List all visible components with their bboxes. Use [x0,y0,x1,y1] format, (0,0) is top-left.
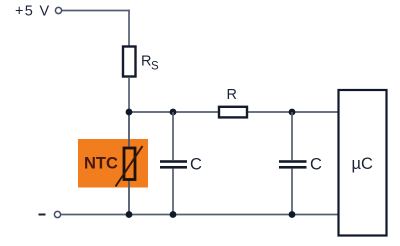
junction bottom rail at NTC [126,211,133,218]
resistor RS body [123,47,136,77]
svg-text:R: R [227,87,237,103]
node minus terminal [54,211,60,217]
svg-text:NTC: NTC [84,155,118,173]
thermistor NTC body [124,148,135,180]
svg-text:+5 V: +5 V [15,4,50,20]
node +5V terminal [55,7,61,13]
wire vertical from top rail down to Rs [128,10,130,46]
capacitor C1 bottom lead [172,169,174,215]
junction node A (Rs / NTC / rail) [126,109,133,116]
capacitor C2 plates [279,160,307,168]
junction middle rail at C1 [170,109,177,116]
svg-text:R: R [141,54,151,70]
thermistor NTC diagonal stroke [116,146,143,187]
svg-text:C: C [190,156,202,174]
capacitor C2 top lead [291,112,293,160]
junction middle rail at C2 [289,109,296,116]
capacitor C2 bottom lead [291,169,293,215]
wire through NTC from node A to bottom rail [128,112,130,215]
wire middle rail from node A to uC [129,111,338,113]
microcontroller uC box [339,90,387,236]
NTC highlight box [78,139,148,188]
svg-text:S: S [151,61,159,73]
svg-text:µC: µC [352,155,374,173]
wire from Rs bottom to middle-rail junction [128,77,130,112]
wire top rail from +5V terminal to corner [62,10,130,12]
label minus terminal [39,214,46,216]
svg-text:C: C [310,156,322,174]
junction bottom rail at C2 [289,211,296,218]
junction bottom rail at C1 [170,211,177,218]
capacitor C1 plates [160,160,187,168]
wire bottom rail from minus terminal to uC [61,214,338,216]
resistor R body [219,107,247,118]
label RS [141,54,159,73]
capacitor C1 top lead [172,112,174,160]
